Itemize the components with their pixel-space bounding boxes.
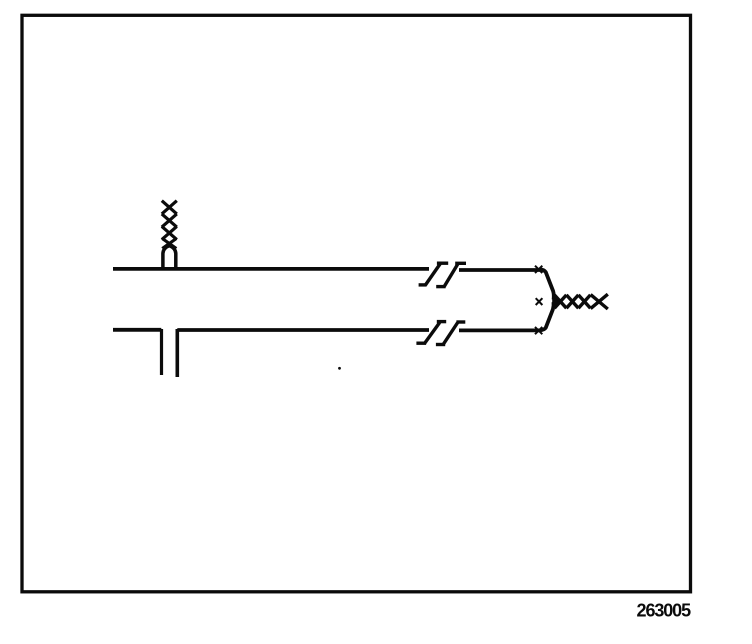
svg-text:263005: 263005 — [637, 601, 692, 621]
